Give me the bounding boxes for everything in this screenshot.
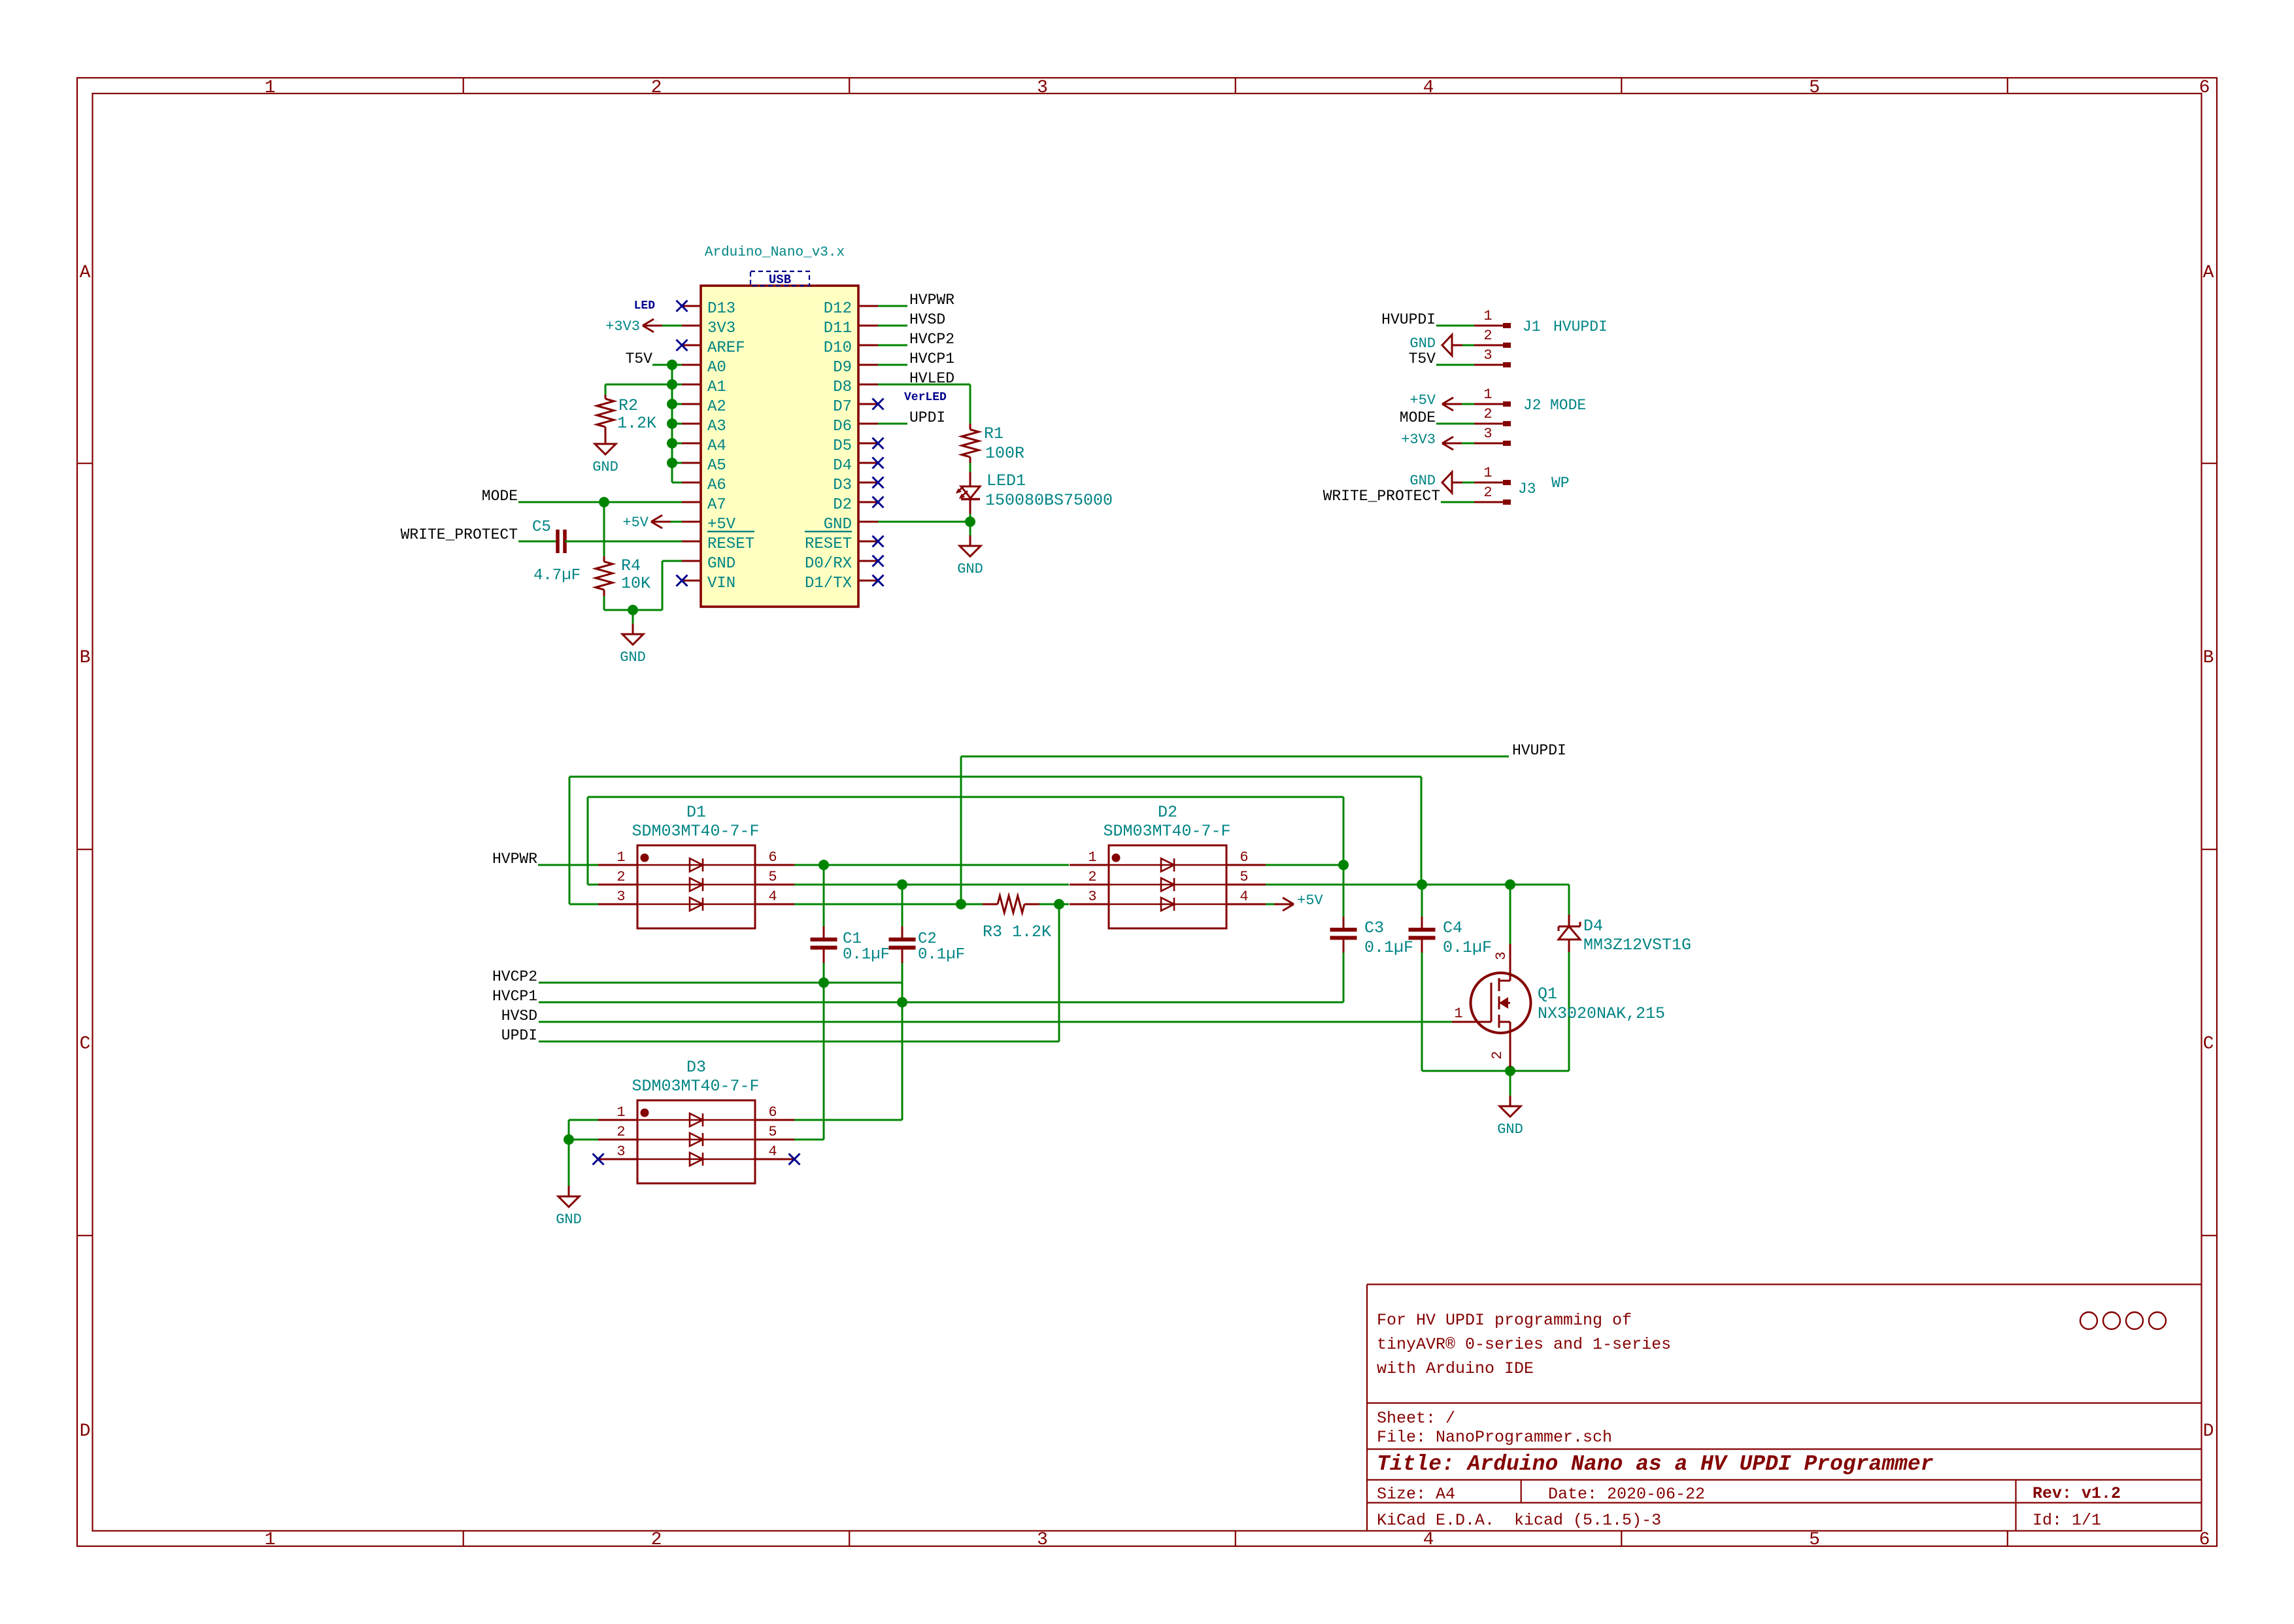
svg-text:A5: A5 [707,457,726,475]
svg-text:MM3Z12VST1G: MM3Z12VST1G [1583,936,1691,955]
svg-text:4: 4 [768,1143,777,1160]
svg-text:D10: D10 [824,339,852,357]
svg-text:VerLED: VerLED [904,391,947,404]
svg-text:HVCP2: HVCP2 [492,968,537,985]
svg-text:+3V3: +3V3 [1401,431,1436,448]
svg-text:D3: D3 [686,1058,706,1077]
svg-text:1.2K: 1.2K [617,414,656,433]
svg-text:1: 1 [616,1104,625,1121]
svg-text:Title: Arduino Nano as a HV UP: Title: Arduino Nano as a HV UPDI Program… [1377,1452,1934,1476]
svg-text:WRITE_PROTECT: WRITE_PROTECT [401,526,518,543]
svg-text:HVCP1: HVCP1 [492,988,537,1005]
svg-text:2: 2 [1088,869,1096,885]
svg-text:HVPWR: HVPWR [909,292,954,309]
svg-text:+5V: +5V [1297,892,1323,909]
svg-text:1: 1 [1483,465,1492,481]
svg-text:LED1: LED1 [987,471,1026,490]
svg-text:D8: D8 [833,379,852,396]
svg-text:SDM03MT40-7-F: SDM03MT40-7-F [632,1077,759,1096]
svg-text:GND: GND [1409,473,1436,489]
svg-text:Q1: Q1 [1538,985,1557,1004]
svg-text:D2: D2 [1158,803,1177,822]
svg-text:HVLED: HVLED [909,370,954,387]
svg-text:A: A [80,263,91,283]
svg-text:with Arduino IDE: with Arduino IDE [1377,1359,1534,1378]
svg-text:2: 2 [616,1124,625,1140]
svg-text:D12: D12 [824,300,852,318]
svg-text:4: 4 [1240,888,1248,905]
svg-text:SDM03MT40-7-F: SDM03MT40-7-F [632,822,759,841]
svg-text:HVCP1: HVCP1 [909,350,954,367]
svg-text:2: 2 [1483,328,1492,344]
svg-text:A7: A7 [707,496,726,514]
svg-text:6: 6 [2199,78,2210,98]
svg-text:100R: 100R [985,444,1024,463]
svg-text:A2: A2 [707,398,726,416]
svg-text:HVSD: HVSD [909,311,945,328]
svg-text:2: 2 [651,1530,662,1550]
svg-text:HVUPDI: HVUPDI [1512,742,1566,759]
svg-text:A4: A4 [707,437,726,455]
svg-text:C4: C4 [1443,919,1462,938]
svg-text:KiCad E.D.A. kicad (5.1.5)-3: KiCad E.D.A. kicad (5.1.5)-3 [1377,1511,1661,1530]
svg-text:3: 3 [616,1143,625,1160]
svg-text:D: D [2203,1421,2214,1442]
svg-text:3V3: 3V3 [707,320,735,337]
svg-text:3: 3 [616,888,625,905]
svg-text:Arduino_Nano_v3.x: Arduino_Nano_v3.x [705,245,845,260]
svg-text:C5: C5 [532,518,551,536]
svg-text:C: C [2203,1034,2214,1055]
svg-text:150080BS75000: 150080BS75000 [985,491,1113,510]
svg-text:GND: GND [1409,335,1436,352]
svg-text:J2: J2 [1523,397,1542,414]
svg-text:NX3020NAK,215: NX3020NAK,215 [1538,1004,1665,1023]
svg-text:R1: R1 [984,424,1004,443]
svg-text:5: 5 [1809,78,1820,98]
svg-text:D1: D1 [686,803,706,822]
svg-text:C1: C1 [843,930,862,948]
svg-text:VIN: VIN [707,575,735,592]
svg-text:D9: D9 [833,359,852,377]
svg-text:4: 4 [768,888,777,905]
svg-text:T5V: T5V [626,350,653,367]
svg-text:D0/RX: D0/RX [805,555,852,573]
svg-text:1: 1 [265,1530,276,1550]
svg-text:GND: GND [620,649,646,666]
svg-text:Sheet: /: Sheet: / [1377,1409,1455,1428]
svg-text:5: 5 [1809,1530,1820,1550]
svg-text:UPDI: UPDI [501,1027,537,1044]
svg-text:HVPWR: HVPWR [492,851,537,868]
svg-text:10K: 10K [621,574,650,593]
svg-text:3: 3 [1037,1530,1048,1550]
svg-text:+5V: +5V [1409,392,1436,409]
svg-text:5: 5 [768,1124,777,1140]
svg-text:HVUPDI: HVUPDI [1381,311,1436,328]
svg-text:RESET: RESET [805,535,852,553]
svg-text:AREF: AREF [707,339,745,357]
svg-text:1: 1 [1454,1006,1462,1022]
svg-text:WRITE_PROTECT: WRITE_PROTECT [1323,488,1440,505]
svg-text:C3: C3 [1364,919,1384,938]
svg-text:Id: 1/1: Id: 1/1 [2033,1511,2101,1530]
svg-text:A0: A0 [707,359,726,377]
svg-text:GND: GND [556,1211,582,1228]
svg-text:D4: D4 [1583,917,1603,936]
svg-text:3: 3 [1493,951,1510,960]
svg-text:For HV UPDI programming of: For HV UPDI programming of [1377,1311,1632,1330]
svg-text:0.1µF: 0.1µF [843,946,890,964]
svg-text:R3 1.2K: R3 1.2K [983,922,1051,941]
svg-text:File: NanoProgrammer.sch: File: NanoProgrammer.sch [1377,1428,1612,1447]
svg-text:MODE: MODE [1550,397,1586,414]
svg-text:R2: R2 [618,396,638,415]
svg-text:Rev: v1.2: Rev: v1.2 [2033,1484,2121,1503]
svg-text:4.7µF: 4.7µF [533,567,581,584]
svg-text:Size: A4: Size: A4 [1377,1485,1455,1504]
svg-text:2: 2 [616,869,625,885]
svg-text:GND: GND [707,555,735,573]
svg-text:1: 1 [1483,386,1492,403]
svg-text:2: 2 [1483,406,1492,422]
svg-text:D4: D4 [833,457,852,475]
svg-text:GND: GND [1497,1121,1523,1138]
svg-text:1: 1 [1483,308,1492,324]
svg-text:3: 3 [1483,426,1492,442]
svg-text:0.1µF: 0.1µF [1443,938,1492,957]
svg-text:tinyAVR® 0-series and 1-series: tinyAVR® 0-series and 1-series [1377,1335,1671,1354]
svg-text:3: 3 [1037,78,1048,98]
svg-text:1: 1 [265,78,276,98]
svg-text:A1: A1 [707,379,726,396]
svg-text:D7: D7 [833,398,852,416]
svg-text:MODE: MODE [482,488,518,505]
svg-text:C2: C2 [918,930,937,948]
svg-text:+3V3: +3V3 [605,318,640,335]
svg-text:D3: D3 [833,477,852,494]
svg-text:WP: WP [1551,475,1570,492]
svg-text:B: B [2203,648,2214,668]
svg-text:6: 6 [2199,1530,2210,1550]
svg-text:GND: GND [592,459,618,475]
svg-text:D13: D13 [707,300,735,318]
svg-text:0.1µF: 0.1µF [918,946,965,964]
svg-text:R4: R4 [621,556,641,575]
svg-text:A6: A6 [707,477,726,494]
svg-text:D1/TX: D1/TX [805,575,852,592]
svg-text:HVSD: HVSD [501,1007,537,1024]
svg-text:4: 4 [1423,78,1434,98]
svg-text:2: 2 [651,78,662,98]
svg-text:J3: J3 [1518,481,1536,498]
svg-text:3: 3 [1483,347,1492,364]
svg-text:D2: D2 [833,496,852,514]
svg-text:USB: USB [769,273,791,287]
svg-text:D6: D6 [833,418,852,435]
svg-text:HVCP2: HVCP2 [909,331,954,348]
svg-text:RESET: RESET [707,535,754,553]
svg-text:0.1µF: 0.1µF [1364,938,1413,957]
svg-text:5: 5 [1240,869,1248,885]
svg-text:Date: 2020-06-22: Date: 2020-06-22 [1548,1485,1705,1504]
svg-text:6: 6 [1240,849,1248,866]
svg-text:D11: D11 [824,320,852,337]
svg-text:J1: J1 [1523,318,1541,335]
svg-text:LED: LED [634,299,656,313]
svg-text:6: 6 [768,1104,777,1121]
svg-text:A3: A3 [707,418,726,435]
svg-text:6: 6 [768,849,777,866]
svg-text:SDM03MT40-7-F: SDM03MT40-7-F [1103,822,1230,841]
svg-text:GND: GND [957,561,983,577]
svg-text:1: 1 [1088,849,1096,866]
svg-text:1: 1 [616,849,625,866]
svg-text:D: D [80,1421,91,1442]
svg-text:A: A [2203,263,2214,283]
svg-text:+5V: +5V [622,515,649,531]
svg-text:MODE: MODE [1400,409,1436,426]
svg-text:UPDI: UPDI [909,409,945,426]
svg-text:T5V: T5V [1409,350,1436,367]
svg-text:2: 2 [1483,484,1492,501]
svg-text:4: 4 [1423,1530,1434,1550]
svg-text:5: 5 [768,869,777,885]
svg-text:2: 2 [1489,1051,1506,1059]
svg-text:HVUPDI: HVUPDI [1553,318,1608,335]
svg-text:B: B [80,648,91,668]
svg-text:3: 3 [1088,888,1096,905]
svg-text:C: C [80,1034,91,1055]
svg-text:D5: D5 [833,437,852,455]
